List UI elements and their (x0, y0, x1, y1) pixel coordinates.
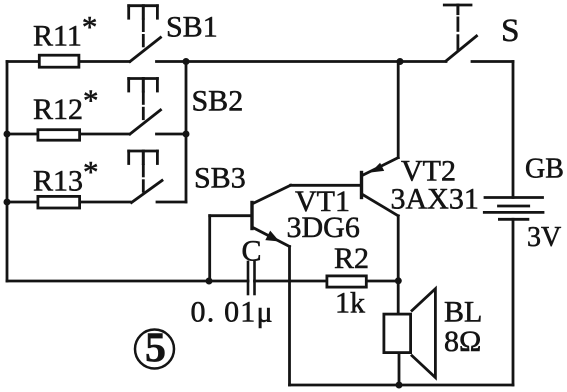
svg-text:1k: 1k (335, 287, 365, 320)
svg-text:C: C (242, 235, 262, 268)
svg-text:3V: 3V (527, 222, 561, 253)
svg-text:3AX31: 3AX31 (391, 183, 479, 216)
svg-text:8Ω: 8Ω (444, 325, 481, 358)
svg-text:SB3: SB3 (194, 162, 246, 195)
svg-text:S: S (501, 13, 520, 49)
svg-text:SB1: SB1 (166, 11, 218, 44)
svg-text:GB: GB (525, 154, 564, 185)
svg-text:SB2: SB2 (192, 85, 244, 118)
svg-text:5: 5 (145, 326, 166, 372)
svg-text:R2: R2 (334, 242, 369, 275)
svg-text:3DG6: 3DG6 (287, 211, 360, 244)
svg-text:0. 01μ: 0. 01μ (191, 296, 274, 329)
svg-text:BL: BL (444, 296, 482, 329)
